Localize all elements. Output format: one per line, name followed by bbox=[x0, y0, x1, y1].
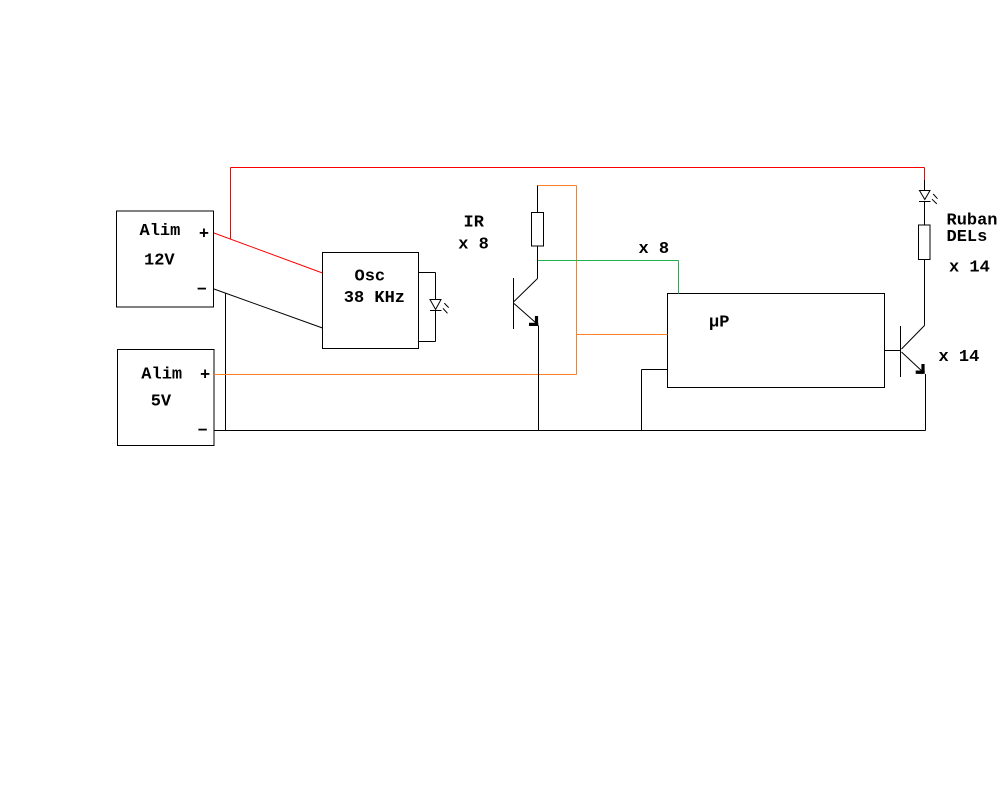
wire red: vertical riser x=230 bbox=[230, 168, 232, 240]
wire: Q2 emitter to ground bus bbox=[925, 374, 927, 431]
wire green: drop into µP top bbox=[678, 261, 680, 294]
wire: Q1 emitter to ground bus bbox=[538, 326, 540, 431]
svg-text:Alim: Alim bbox=[140, 222, 181, 241]
pin - (Alim 12V) bbox=[198, 288, 206, 290]
wire: D2 to R2 bbox=[924, 202, 926, 226]
pin - (Alim 5V) bbox=[198, 429, 206, 431]
wire: black drop above LED D2 bbox=[924, 180, 926, 190]
wire: µP to Q2 base bbox=[885, 350, 901, 352]
wire black: 12V- diagonal to Osc bbox=[214, 289, 323, 328]
wire red: top horizontal bus bbox=[231, 167, 925, 169]
wire black: bottom ground bus bbox=[214, 430, 926, 432]
svg-text:5V: 5V bbox=[151, 393, 172, 412]
svg-text:µP: µP bbox=[709, 314, 729, 333]
svg-text:x 8: x 8 bbox=[458, 236, 489, 255]
block µP bbox=[668, 294, 885, 388]
wire orange: branch to µP bbox=[577, 334, 668, 336]
resistor R1 bbox=[532, 213, 544, 247]
transistor Q2 (DEL driver) bbox=[901, 326, 925, 378]
wire red: 12V+ diagonal to Osc bbox=[214, 233, 323, 273]
wire: LED loop bottom back to Osc bbox=[419, 311, 436, 342]
block Alim 5V bbox=[118, 350, 215, 446]
wire: µP ground L-wire bbox=[642, 370, 668, 431]
transistor Q1 (IR driver) bbox=[514, 278, 539, 329]
svg-text:38 KHz: 38 KHz bbox=[344, 289, 405, 308]
wire: orange node down to R1 bbox=[537, 186, 539, 213]
svg-text:+: + bbox=[199, 226, 209, 245]
wire orange: vertical x=576 bbox=[576, 186, 578, 375]
wire green: x8 signal horizontal bbox=[538, 260, 679, 262]
svg-text:DELs: DELs bbox=[947, 228, 988, 247]
wire black: vertical x=225 from 12V- to ground bus bbox=[225, 293, 227, 431]
svg-text:+: + bbox=[200, 367, 210, 386]
wire red: right drop to LED bbox=[924, 168, 926, 181]
svg-text:x 14: x 14 bbox=[939, 348, 980, 367]
wire: Osc to LED loop top bbox=[419, 273, 436, 300]
svg-text:x 8: x 8 bbox=[639, 240, 670, 259]
svg-text:IR: IR bbox=[464, 214, 485, 233]
block Alim 12V bbox=[117, 211, 214, 307]
wire: R1 bottom to Q1 collector bbox=[537, 246, 539, 279]
resistor R2 bbox=[919, 225, 931, 259]
LED D2 (Ruban DELs) bbox=[920, 191, 931, 200]
wire: R2 to Q2 collector bbox=[924, 260, 926, 326]
svg-text:Osc: Osc bbox=[355, 268, 386, 287]
svg-text:x 14: x 14 bbox=[949, 259, 990, 278]
svg-text:Alim: Alim bbox=[141, 365, 182, 384]
svg-text:12V: 12V bbox=[144, 251, 175, 270]
wire orange: top link to R1 bbox=[538, 185, 577, 187]
LED D1 (Osc output) bbox=[430, 300, 441, 310]
block Osc 38 KHz bbox=[323, 253, 419, 349]
wire orange: 5V+ horizontal bbox=[214, 374, 577, 376]
